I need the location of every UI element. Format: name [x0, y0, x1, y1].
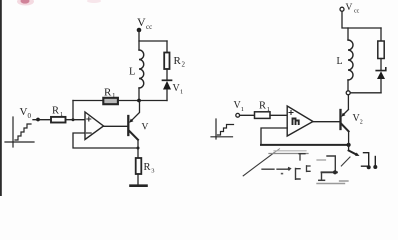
- svg-text:R: R: [104, 87, 112, 99]
- svg-text:V: V: [20, 106, 28, 118]
- svg-text:R: R: [174, 55, 182, 67]
- svg-text:2: 2: [182, 61, 186, 69]
- svg-text:L: L: [129, 67, 135, 78]
- svg-text:cc: cc: [146, 23, 152, 31]
- svg-text:L: L: [337, 56, 343, 67]
- svg-text:0: 0: [28, 112, 32, 120]
- svg-text:V: V: [346, 3, 353, 13]
- svg-text:1: 1: [267, 106, 270, 113]
- svg-text:cc: cc: [354, 9, 360, 15]
- svg-text:R: R: [52, 106, 59, 117]
- svg-text:V: V: [137, 15, 146, 29]
- svg-text:1: 1: [60, 111, 63, 118]
- svg-text:R: R: [144, 162, 151, 173]
- svg-text:V: V: [142, 123, 149, 133]
- svg-text:3: 3: [151, 168, 154, 175]
- svg-text:1: 1: [241, 106, 244, 113]
- svg-text:1: 1: [180, 89, 183, 96]
- svg-text:R: R: [259, 101, 266, 112]
- svg-text:2: 2: [360, 120, 363, 126]
- svg-text:1: 1: [112, 92, 116, 100]
